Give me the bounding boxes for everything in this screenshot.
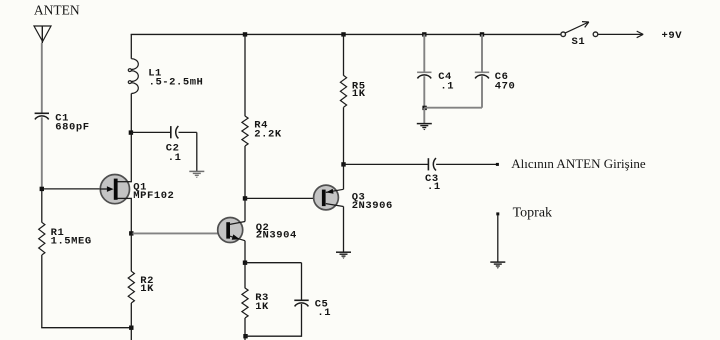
resistor R4 — [242, 116, 248, 146]
node emitter junction — [243, 261, 247, 265]
wire base node down to Q2 collector — [244, 198, 246, 221]
antenna symbol — [34, 26, 51, 43]
wire gate node down to R1 — [41, 191, 43, 223]
Q1 source lead — [118, 197, 132, 199]
wire C3 to output end — [436, 163, 496, 165]
label C1 value — [55, 113, 89, 134]
resistor R1 — [39, 222, 45, 255]
wire rail to C4 — [423, 34, 425, 71]
label C2 value — [166, 142, 182, 164]
capacitor C4 — [417, 72, 431, 78]
Q2 emitter lead — [230, 234, 245, 240]
label R5 value — [352, 81, 366, 100]
wire rail to R4 — [244, 34, 246, 116]
wire L1 to C2 node — [130, 94, 132, 133]
node bottom right junction — [243, 334, 247, 338]
label R1 value — [51, 227, 92, 247]
wire +9V top rail — [131, 33, 561, 35]
wire R4 to base node — [244, 146, 246, 198]
label C3 value — [425, 173, 441, 193]
label R3 value — [255, 292, 269, 313]
node gate junction — [40, 187, 44, 191]
ground after C2 — [189, 171, 204, 178]
wire output node to C3 — [344, 163, 429, 165]
svg-text:1K: 1K — [140, 283, 154, 295]
label +9V — [662, 30, 683, 42]
wire C4 to ground node — [423, 76, 425, 108]
svg-text:Toprak: Toprak — [513, 206, 552, 221]
wire S1 to +9V arrow — [598, 31, 643, 38]
node Toprak endpoint — [496, 212, 499, 215]
svg-text:.1: .1 — [317, 307, 331, 319]
svg-text:.1: .1 — [168, 152, 182, 164]
node C2 tap — [129, 130, 133, 134]
wire output node to Q3 emitter — [343, 164, 345, 189]
wire C2 to ground — [179, 132, 197, 171]
wire C4-C6 bottom link — [424, 107, 482, 109]
svg-text:1K: 1K — [352, 88, 366, 100]
Q3 collector lead — [326, 204, 344, 207]
wire to C4 ground — [423, 108, 425, 124]
node rail R4 junction — [243, 32, 247, 36]
Q2 collector lead — [230, 222, 245, 225]
switch S1 lever — [565, 22, 589, 33]
resistor R2 — [128, 271, 134, 303]
svg-text:680pF: 680pF — [55, 121, 89, 133]
wire rail to C6 — [481, 34, 483, 71]
wire gate node to Q1 gate — [43, 188, 108, 190]
wire Q2 base lead — [133, 232, 227, 234]
resistor R5 — [340, 75, 346, 107]
wire Q1 source down — [130, 198, 132, 233]
wire emitter node to R3 — [244, 263, 246, 289]
wire rail to L1 — [130, 34, 132, 58]
label Q2 type — [256, 222, 297, 241]
transistor Q2 body — [218, 218, 243, 243]
wire R5 to output node — [343, 107, 345, 164]
svg-text:470: 470 — [495, 80, 516, 92]
wire R1 to bottom rail — [41, 255, 43, 328]
label L1 value — [148, 68, 203, 89]
transistor Q3 body — [314, 185, 339, 210]
Q1 gate arrow — [100, 186, 114, 192]
node output endpoint — [496, 163, 499, 166]
ground after Q3 — [336, 252, 351, 259]
label R4 value — [254, 120, 282, 141]
svg-text:1K: 1K — [255, 301, 269, 313]
svg-text:2N3904: 2N3904 — [256, 229, 297, 241]
node Q2 base junction — [129, 231, 133, 235]
wire antenna to C1 — [41, 43, 43, 113]
label C6 value — [495, 71, 516, 93]
inductor L1 — [128, 59, 138, 94]
svg-text:1.5MEG: 1.5MEG — [51, 235, 92, 247]
node Q3 base junction — [243, 196, 247, 200]
wire emitter node to C5 — [245, 263, 302, 300]
node rail R5 junction — [341, 32, 345, 36]
wire Q1 source to R2 — [130, 233, 132, 271]
label S1 — [572, 36, 586, 48]
svg-text:ANTEN: ANTEN — [34, 3, 80, 18]
capacitor C1 — [35, 113, 49, 119]
ground Toprak — [490, 262, 505, 269]
svg-text:2.2K: 2.2K — [254, 128, 282, 140]
Q3 emitter lead — [326, 189, 344, 194]
svg-text:2N3906: 2N3906 — [352, 200, 393, 212]
svg-text:.1: .1 — [440, 80, 454, 92]
wire C2 node to Q1 drain — [130, 133, 132, 182]
wire Q3 collector to ground — [343, 207, 345, 253]
node C4 ground junction — [422, 106, 426, 110]
transistor Q1 body — [100, 175, 129, 204]
wire R3 to bottom — [244, 318, 246, 340]
svg-text:+9V: +9V — [662, 30, 683, 42]
switch S1 right contact — [593, 32, 598, 37]
label Q3 type — [352, 192, 393, 213]
capacitor C3 — [428, 158, 436, 170]
Q1 drain lead — [118, 181, 132, 183]
svg-text:S1: S1 — [572, 36, 586, 48]
node rail C4 junction — [422, 32, 426, 36]
wire rail to R5 — [343, 34, 345, 75]
switch S1 left contact — [561, 32, 566, 37]
node label ANTEN — [34, 3, 80, 18]
label Toprak — [513, 206, 552, 221]
wire Q2 emitter down — [244, 241, 246, 263]
Q2 base bar — [226, 222, 230, 238]
capacitor C5 — [294, 300, 308, 306]
Q1 channel bar — [114, 179, 118, 200]
wire base node to Q3 — [245, 197, 322, 199]
label C4 value — [438, 71, 454, 93]
wire bottom stub — [130, 328, 132, 340]
label output text — [511, 156, 646, 171]
wire node to C2 — [131, 131, 170, 133]
label C5 value — [315, 298, 331, 319]
Q3 base bar — [322, 190, 326, 207]
svg-text:MPF102: MPF102 — [133, 190, 174, 202]
node bottom left junction — [129, 326, 133, 330]
node output junction — [341, 162, 345, 166]
node rail C6 junction — [480, 32, 484, 36]
label R2 value — [140, 275, 154, 295]
capacitor C2 — [171, 126, 179, 138]
ground after C4 — [417, 124, 432, 131]
label Q1 type — [133, 182, 174, 203]
wire Toprak to ground — [497, 215, 499, 262]
svg-text:.5-2.5mH: .5-2.5mH — [149, 76, 204, 88]
svg-text:Alıcının ANTEN Girişine: Alıcının ANTEN Girişine — [511, 156, 646, 171]
capacitor C6 — [475, 72, 489, 78]
wire C6 to bottom link — [481, 76, 483, 108]
svg-text:.1: .1 — [427, 181, 441, 193]
wire C5 to bottom rail — [301, 304, 303, 337]
resistor R3 — [242, 288, 248, 318]
wire R2 to bottom rail — [130, 303, 132, 328]
wire bottom left rail — [41, 327, 131, 329]
wire C1 to gate node — [41, 117, 43, 187]
wire bottom right rail — [245, 335, 302, 337]
